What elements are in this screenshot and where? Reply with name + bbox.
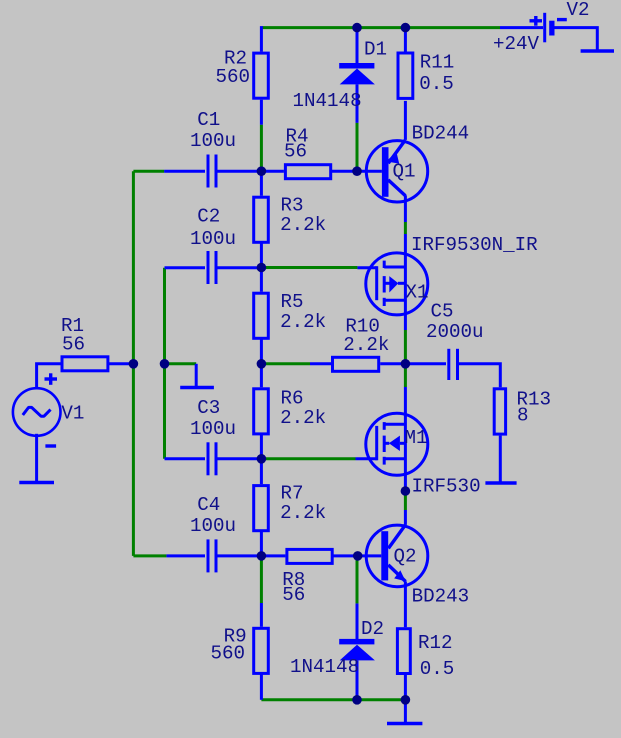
node C1/R2/R3/R4 [257, 166, 267, 176]
node Q2 base [353, 551, 363, 561]
ground (bottom) [387, 700, 422, 724]
svg-text:+24V: +24V [493, 33, 540, 55]
svg-text:R5: R5 [281, 291, 304, 313]
svg-text:56: 56 [62, 334, 85, 356]
resistor R6 [254, 364, 269, 459]
node C2/R3/R5 [257, 263, 267, 273]
svg-text:X1: X1 [406, 282, 429, 304]
svg-text:100u: 100u [190, 228, 236, 250]
wire Q2 base to D2 [356, 557, 359, 603]
svg-text:100u: 100u [190, 418, 236, 440]
svg-text:100u: 100u [190, 130, 236, 152]
mosfet X1 IRF9530N_IR (PMOS) [357, 234, 427, 330]
transistor Q1 BD244 (PNP) [357, 140, 428, 222]
svg-text:R11: R11 [420, 52, 455, 74]
node R1 input [129, 359, 139, 369]
node M1/Q2 [401, 486, 411, 496]
svg-text:C5: C5 [431, 301, 454, 323]
capacitor C1 [164, 155, 258, 188]
svg-text:BD243: BD243 [412, 586, 470, 608]
diode D2 1N4148 [339, 603, 375, 699]
svg-text:2.2k: 2.2k [280, 407, 326, 429]
svg-text:Q2: Q2 [394, 546, 417, 568]
resistor R2 [254, 26, 269, 125]
wire C4 node to R9 [260, 556, 263, 603]
svg-text:0.5: 0.5 [419, 73, 454, 95]
wire X1 to output node [404, 330, 407, 387]
svg-text:R6: R6 [281, 387, 304, 409]
svg-text:2.2k: 2.2k [343, 334, 389, 356]
resistor R7 [254, 459, 269, 556]
svg-text:R12: R12 [418, 632, 453, 654]
voltage source V1 [13, 364, 61, 481]
svg-text:IRF530: IRF530 [412, 476, 481, 498]
resistor R4 [261, 165, 357, 179]
ground (V1) [19, 481, 54, 484]
capacitor C2 [165, 251, 259, 284]
mosfet M1 IRF530 (NMOS) [356, 387, 428, 491]
svg-text:1N4148: 1N4148 [290, 656, 359, 678]
node D2 bottom [352, 695, 362, 705]
svg-text:R7: R7 [281, 482, 304, 504]
wire X1 gate [261, 266, 357, 269]
svg-text:C2: C2 [197, 206, 220, 228]
svg-text:BD244: BD244 [412, 123, 470, 145]
svg-text:IRF9530N_IR: IRF9530N_IR [411, 234, 538, 256]
capacitor C5 [405, 349, 500, 388]
resistor R8 [261, 549, 357, 563]
svg-text:2.2k: 2.2k [280, 214, 326, 236]
node top R11 [401, 23, 411, 33]
svg-text:V1: V1 [61, 402, 84, 424]
resistor R10 [310, 357, 403, 371]
ground (V2) [581, 49, 614, 52]
ground (R13) [485, 481, 516, 484]
svg-text:2000u: 2000u [426, 321, 484, 343]
wire D1 to Q1 base [356, 123, 359, 171]
wire bottom rail [261, 698, 405, 701]
wire ground vertical [163, 268, 166, 459]
node R5/R6/R10 [257, 359, 267, 369]
resistor R12 [397, 581, 410, 699]
svg-text:C4: C4 [197, 494, 220, 516]
svg-text:Q1: Q1 [393, 161, 416, 183]
resistor R5 [254, 268, 269, 364]
svg-text:R3: R3 [281, 194, 304, 216]
battery V2 [500, 13, 597, 50]
node ground branch [160, 359, 170, 369]
wire M1 gate [261, 457, 355, 460]
node C4/R7/R8 [257, 551, 267, 561]
wire Q1 to X1 [404, 222, 407, 234]
svg-text:8: 8 [517, 405, 529, 427]
node Q1 base [352, 166, 362, 176]
svg-text:1N4148: 1N4148 [293, 90, 362, 112]
svg-text:V2: V2 [567, 0, 590, 21]
resistor R13 [494, 389, 505, 482]
wire R2 to C1 node [260, 125, 263, 171]
svg-text:2.2k: 2.2k [280, 502, 326, 524]
wire node to R10 [261, 362, 310, 365]
svg-text:C1: C1 [197, 109, 220, 131]
ground (input bias) [165, 364, 214, 388]
svg-text:D2: D2 [361, 618, 384, 640]
capacitor C3 [165, 442, 259, 475]
resistor R3 [254, 171, 269, 267]
svg-text:100u: 100u [190, 515, 236, 537]
svg-text:560: 560 [216, 66, 251, 88]
svg-text:C3: C3 [197, 397, 220, 419]
resistor R1 [62, 357, 131, 371]
diode D1 1N4148 [339, 28, 375, 123]
svg-text:560: 560 [211, 642, 246, 664]
node top D1 [352, 23, 362, 33]
svg-text:56: 56 [282, 584, 305, 606]
svg-text:M1: M1 [405, 427, 428, 449]
capacitor C4 [166, 539, 258, 572]
wire input vertical [132, 171, 135, 556]
node C3/R6/R7 [257, 454, 267, 464]
wire C1 left [133, 170, 164, 173]
node R12 bottom [401, 695, 411, 705]
resistor R11 [398, 28, 413, 140]
svg-text:0.5: 0.5 [420, 658, 455, 680]
wire C4 left [133, 554, 166, 557]
svg-text:56: 56 [284, 141, 307, 163]
wire top rail [262, 26, 500, 29]
svg-text:D1: D1 [364, 39, 387, 61]
wire M1 to Q2 [404, 491, 407, 510]
node output [401, 359, 411, 369]
resistor R9 [254, 603, 269, 700]
svg-text:2.2k: 2.2k [280, 311, 326, 333]
transistor Q2 BD243 (NPN) [358, 510, 428, 587]
